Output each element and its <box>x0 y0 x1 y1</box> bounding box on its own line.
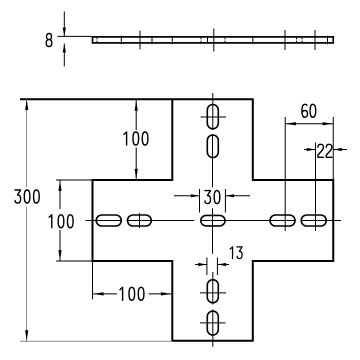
arrow 100 bottom left <box>93 292 104 295</box>
tick slot H right end <box>327 36 329 45</box>
arrow 30 pointing left <box>225 194 234 197</box>
arrow 300 up <box>25 99 28 110</box>
horizontal centerline segment through H past right edge <box>301 220 341 222</box>
tick slot F right end <box>151 36 153 45</box>
dim line 22 left shaft <box>304 149 316 151</box>
dim line 100 left upper <box>59 181 61 210</box>
vertical centerline segment through slot B below bottom edge <box>212 310 214 347</box>
extension line 300 top (merged with top edge) <box>20 98 172 100</box>
plate outline cross <box>93 99 334 340</box>
dim line 13 left shaft <box>195 264 207 266</box>
slot H horizontal right arm <box>301 215 326 226</box>
label 22 <box>318 144 332 157</box>
extension line top of side view <box>58 35 93 37</box>
slot E horizontal left arm <box>96 215 121 226</box>
slot F horizontal left arm <box>128 215 152 226</box>
dim line 300 <box>26 99 28 187</box>
extension bar center slot right <box>224 189 226 213</box>
extension line slot G center <box>284 117 286 231</box>
extension bar center slot left <box>199 189 201 213</box>
slot C vertical top arm <box>207 105 218 129</box>
extension line slot H center <box>315 143 317 232</box>
vertical centerline segment through slot A <box>212 272 214 305</box>
arrow 30 pointing right <box>191 194 200 197</box>
slot A vertical bottom arm <box>207 280 218 303</box>
dim line 8 lower shaft <box>63 44 65 67</box>
dim line 100 bottom right part <box>149 293 172 295</box>
label 8 <box>46 34 52 47</box>
dim line 30 right shaft <box>225 195 250 197</box>
horizontal centerline segment left arm through E <box>86 220 122 222</box>
tick bar left edge <box>171 36 173 45</box>
arrow 13 pointing left <box>217 263 226 266</box>
label 100 bottom <box>120 287 144 300</box>
arrow 13 pointing right <box>198 263 207 266</box>
arrow 22 pointing right <box>307 148 316 151</box>
label 13 <box>230 247 242 259</box>
hidden line vertical slots left edge <box>207 38 209 42</box>
dim line 8 upper shaft <box>63 12 65 37</box>
dim line 13 right shaft <box>217 264 229 266</box>
dim line 60 <box>285 123 333 125</box>
arrow 100 left down <box>58 250 61 261</box>
center tick across slot C <box>201 116 227 118</box>
centerline slot F <box>139 31 141 50</box>
dim line 100 top upper <box>135 100 137 130</box>
arrow 8 down <box>63 28 66 37</box>
hidden line center slot left end <box>200 38 202 42</box>
arrow 22 pointing left <box>333 148 342 151</box>
extension line right edge upward <box>332 117 334 180</box>
tick slot E right end <box>120 36 122 45</box>
slot G horizontal right arm <box>270 215 295 226</box>
arrow 8 up <box>63 44 66 53</box>
extension bar slot right edge <box>216 258 218 276</box>
label 60 <box>302 104 316 117</box>
hidden line slot E left end <box>96 38 98 42</box>
hidden line slot H left end <box>301 38 303 42</box>
centerline slot G <box>284 30 286 50</box>
slot D vertical top arm <box>207 135 218 158</box>
centerline slot H <box>314 30 316 50</box>
slot center horizontal <box>201 215 225 226</box>
extension line 300 bottom <box>20 340 172 342</box>
arrow 100 top up <box>135 100 138 111</box>
vertical centerline segment through D and center slot <box>212 134 214 187</box>
horizontal centerline segment center slot to G <box>200 220 296 222</box>
dim line 100 bottom left part <box>93 293 117 295</box>
arrow 100 bottom right <box>161 292 172 295</box>
plate side-view outline <box>93 37 334 43</box>
arrow 100 left up <box>58 180 61 191</box>
extension line left top <box>56 179 93 181</box>
extension line below left edge <box>92 262 94 299</box>
label 300 <box>15 190 39 203</box>
hidden line center slot right end <box>224 38 226 42</box>
label 30 <box>205 191 220 204</box>
horizontal centerline segment through F to center <box>127 220 195 222</box>
dim line 30 left shaft <box>174 195 200 197</box>
arrow 300 down <box>25 330 28 341</box>
dim line 22 right shaft <box>333 149 347 151</box>
slot B vertical bottom arm <box>207 311 218 335</box>
dim line 100 top lower <box>135 148 137 180</box>
dim line 100 left lower <box>59 230 61 261</box>
arrow 60 right <box>323 122 334 125</box>
hidden line slot G right end <box>296 38 298 42</box>
arrow 100 top down <box>135 169 138 180</box>
label 100 top <box>124 132 148 145</box>
center tick across slot A <box>200 292 226 294</box>
arrow 60 left <box>285 122 296 125</box>
center tick across slot B <box>200 322 226 324</box>
extension line left bottom <box>56 260 93 262</box>
tick bar right edge <box>252 36 254 45</box>
label 100 left <box>49 215 73 228</box>
extension bar slot left edge <box>206 258 208 276</box>
vertical centerline segment above top edge through slots C <box>212 93 214 130</box>
main centerline top view <box>213 29 215 52</box>
center tick across slot F <box>139 213 141 228</box>
